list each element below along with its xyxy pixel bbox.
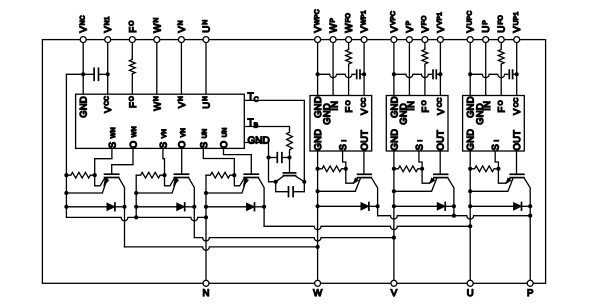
junction V resistor node: [392, 167, 396, 171]
wire cap left lead: [83, 73, 94, 75]
arrow QWp emitter: [353, 178, 358, 184]
junction V high collector P bus: [452, 214, 456, 218]
junction DWn anode: [64, 205, 68, 209]
svg-text:V: V: [391, 288, 398, 299]
wire WN input: [156, 43, 158, 95]
wire SU sense: [495, 151, 498, 169]
svg-text:GND: GND: [466, 129, 477, 151]
wire UFO upper lead: [500, 43, 502, 49]
terminal VWP1: [361, 37, 367, 43]
wire UFO lower lead: [500, 66, 502, 96]
resistor FO pull-up: [129, 58, 135, 75]
wire SW sense: [343, 151, 346, 169]
wire TB resistor to node: [289, 153, 291, 158]
wire W output bus row: [125, 247, 318, 250]
wire cap to VUP1: [513, 73, 517, 75]
svg-text:P: P: [527, 288, 533, 299]
junction U bus terminal: [468, 224, 472, 228]
junction W diode node: [316, 204, 320, 208]
terminal UP: [483, 37, 489, 43]
wire QVp emitter main: [394, 178, 437, 191]
wire QVp emitter sense: [422, 169, 434, 183]
junction SV node: [420, 167, 424, 171]
wire W-phase emitter bus vertical: [65, 74, 67, 217]
wire QUn emitter sense: [234, 175, 244, 186]
wire U low collector to bus: [263, 207, 265, 227]
junction VN1 cap node: [106, 72, 110, 76]
diode DWp freewheel: [361, 203, 369, 211]
wire VWPC to HVIC: [317, 43, 319, 96]
terminal VP: [406, 37, 412, 43]
wire sub cap left lead: [269, 157, 278, 159]
transistor QUn gate bar: [244, 173, 258, 175]
wire U phase vertical: [469, 151, 471, 280]
arrow QUn emitter: [243, 178, 248, 186]
transistor Q7 gate bar: [283, 172, 295, 174]
terminal VNC: [80, 37, 86, 43]
terminal FO: [129, 37, 135, 43]
transistor QUp channel bar: [510, 177, 524, 179]
junction W emitter resistor: [64, 173, 68, 177]
wire VNC to LVIC GND pin: [82, 43, 84, 95]
wire SUN gate-sense: [203, 148, 234, 175]
wire OWN gate drive: [112, 148, 133, 174]
wire VFO upper lead: [424, 43, 426, 49]
wire UP input: [485, 43, 487, 96]
wire VFO lower lead: [424, 66, 426, 96]
wire WP input: [332, 43, 334, 96]
wire QUn collector: [258, 178, 264, 207]
junction QVn emitter bus: [134, 191, 138, 195]
wire diode DWn cathode lead: [114, 206, 124, 208]
resistor VFO pull-up: [422, 48, 428, 66]
transistor QUp gate bar: [510, 173, 524, 175]
wire SVN gate-sense: [163, 148, 165, 175]
wire FO upper lead: [131, 43, 133, 59]
wire SV sense: [419, 151, 422, 169]
wire diode DUn anode lead: [206, 206, 247, 208]
terminal VFO: [422, 37, 428, 43]
terminal P: [527, 280, 533, 286]
diode DUn freewheel: [247, 203, 255, 211]
transistor QVn channel bar: [174, 177, 188, 179]
svg-text:IN: IN: [330, 101, 341, 111]
terminal UN: [203, 37, 209, 43]
wire V output bus row: [194, 238, 394, 241]
IC HVIC W box: [310, 96, 372, 152]
junction W bus terminal: [316, 245, 320, 249]
resistor RVn gate-emitter: [136, 172, 164, 178]
junction N bus V emitter: [134, 215, 138, 219]
junction SVN node: [162, 173, 166, 177]
junction VWP1 cap node: [362, 72, 366, 76]
junction DUn anode: [204, 205, 208, 209]
IC HVIC V box: [386, 96, 448, 152]
wire VUPC to HVIC: [469, 43, 471, 96]
junction GND sub node: [266, 155, 270, 159]
resistor WFO pull-up: [346, 48, 352, 66]
arrow QWn emitter: [104, 178, 109, 186]
junction Q7 source: [274, 180, 278, 184]
svg-text:GND: GND: [389, 129, 400, 151]
transistor QVp channel bar: [434, 177, 448, 179]
junction VUPC cap node: [468, 72, 472, 76]
wire QWn emitter sense: [95, 175, 105, 186]
wire VN input: [180, 43, 182, 95]
capacitor VN1 decoupling: [93, 68, 95, 80]
wire QVn collector: [189, 178, 195, 207]
junction U diode node: [468, 204, 472, 208]
junction VVP1 cap node: [438, 72, 442, 76]
svg-text:OUT: OUT: [359, 130, 370, 151]
terminal W: [315, 280, 321, 286]
junction QVn collector diode: [192, 205, 196, 209]
diode DWn freewheel: [107, 203, 115, 211]
wire QUn emitter main: [206, 178, 247, 193]
wire W low collector to bus: [124, 207, 126, 247]
wire VVPC to HVIC: [393, 43, 395, 96]
resistor TB: [287, 130, 293, 153]
wire V phase vertical: [393, 151, 395, 280]
capacitor CUp decoupling: [508, 70, 510, 78]
junction SWN node: [93, 173, 97, 177]
transistor QVn gate bar: [174, 173, 188, 175]
wire diode DUp anode lead: [470, 205, 513, 207]
wire N bus row: [66, 217, 206, 220]
wire diode DWp cathode lead: [368, 205, 377, 207]
wire QUp collector: [524, 178, 530, 207]
junction N bus U emitter: [204, 215, 208, 219]
terminal VVP1: [437, 37, 443, 43]
wire QWp emitter main: [318, 178, 361, 191]
arrow QVp emitter: [430, 178, 435, 184]
wire GND branch to N bus: [66, 73, 83, 75]
junction QWn emitter bus: [64, 191, 68, 195]
junction VUP1 cap node: [515, 72, 519, 76]
wire OUTW gate drive: [363, 151, 365, 174]
resistor RVp gate-emitter: [394, 166, 422, 172]
junction Q7 drain: [302, 180, 306, 184]
svg-text:N: N: [203, 288, 210, 299]
wire OVN gate drive: [181, 148, 183, 174]
wire W phase vertical: [317, 151, 319, 280]
wire VUP1 cap line: [470, 74, 507, 77]
wire QWn collector: [119, 178, 125, 207]
wire VWP1 cap line: [318, 74, 355, 77]
wire V high collector to P bus: [453, 206, 455, 215]
wire diode DWn anode lead: [66, 206, 107, 208]
junction QUn collector diode: [262, 205, 266, 209]
wire cap right lead: [99, 73, 108, 75]
junction VVPC cap node: [392, 72, 396, 76]
wire FO lower lead: [131, 75, 133, 94]
diode DVp freewheel: [437, 203, 445, 211]
terminal WP: [330, 37, 336, 43]
junction SW node: [344, 167, 348, 171]
wire VVP1 cap line: [394, 74, 431, 77]
junction QVp collector diode: [452, 204, 456, 208]
wire WFO upper lead: [348, 43, 350, 49]
svg-text:GND: GND: [313, 129, 324, 151]
wire QUp emitter main: [470, 178, 513, 191]
svg-text:OUT: OUT: [436, 130, 447, 151]
terminal VN: [178, 37, 184, 43]
junction VNC cap node: [81, 72, 85, 76]
wire U high collector to P terminal: [529, 206, 531, 280]
terminal VUP1: [514, 37, 520, 43]
wire GND right from LVIC: [244, 143, 275, 182]
wire OUN gate drive: [224, 148, 252, 174]
terminal U: [467, 280, 473, 286]
terminal N: [203, 280, 209, 286]
wire TC from LVIC: [244, 100, 304, 181]
wire Q7 right leg: [295, 176, 304, 182]
diode DUp freewheel: [514, 203, 522, 211]
resistor RWn gate-emitter: [66, 172, 94, 178]
junction SU node: [496, 167, 500, 171]
wire V low collector to bus: [193, 207, 195, 238]
wire TB from LVIC: [244, 127, 289, 130]
transistor Q7 channel bar: [283, 175, 295, 177]
junction V emitter node: [392, 189, 396, 193]
junction VWPC cap node: [316, 72, 320, 76]
wire VVP1 supply: [439, 43, 441, 96]
wire diode DUp cathode lead: [521, 205, 530, 207]
terminal V: [391, 280, 397, 286]
wire QWp emitter sense: [346, 169, 358, 183]
junction QWp collector diode: [376, 204, 380, 208]
wire QVn emitter sense: [165, 175, 175, 186]
wire VUP1 supply: [516, 43, 518, 96]
transistor QWn gate bar: [105, 173, 119, 175]
transistor QVp gate bar: [434, 173, 448, 175]
transistor QWp gate bar: [358, 173, 372, 175]
wire P bus: [378, 216, 531, 219]
wire diode DVp anode lead: [394, 205, 437, 207]
terminal VWPC: [315, 37, 321, 43]
wire diode DUn cathode lead: [254, 206, 264, 208]
transistor QUn channel bar: [244, 177, 258, 179]
svg-text:GND: GND: [79, 96, 90, 118]
terminal VN1: [105, 37, 111, 43]
capacitor CVp decoupling: [432, 70, 434, 78]
wire sub gate drop: [289, 158, 291, 173]
wire QUp emitter sense: [498, 169, 510, 183]
junction U emitter node: [468, 189, 472, 193]
wire Q7 lower loop right: [293, 182, 304, 192]
resistor RUp gate-emitter: [470, 166, 498, 172]
resistor RUn gate-emitter: [206, 172, 234, 178]
wire WFO lower lead: [348, 66, 350, 96]
arrow QUp emitter: [506, 178, 511, 184]
svg-text:W: W: [313, 288, 323, 299]
wire VWP1 supply: [363, 43, 365, 96]
arrow QVn emitter: [173, 178, 178, 186]
transistor QWp channel bar: [358, 177, 372, 179]
junction DVn anode: [134, 205, 138, 209]
IC HVIC U box: [463, 96, 525, 152]
junction V bus terminal: [392, 236, 396, 240]
resistor RWp gate-emitter: [318, 166, 346, 172]
wire sub cap right lead: [282, 157, 290, 159]
wire diode DVp cathode lead: [445, 205, 454, 207]
wire QVn emitter main: [136, 178, 177, 193]
wire V-phase emitter bus vertical: [135, 175, 137, 217]
terminal WFO: [346, 37, 352, 43]
wire QVp collector: [448, 178, 454, 207]
terminal WN: [154, 37, 160, 43]
wire diode DVn cathode lead: [184, 206, 194, 208]
junction V diode node: [392, 204, 396, 208]
junction U resistor node: [468, 167, 472, 171]
wire VN1 to LVIC Vcc pin: [107, 43, 109, 95]
wire Q7 left leg: [276, 176, 284, 182]
package outline border: [42, 40, 545, 284]
svg-text:OUT: OUT: [512, 130, 523, 151]
wire cap to VVP1: [436, 73, 440, 75]
capacitor CWp decoupling: [356, 70, 358, 78]
junction P bus corner: [528, 214, 532, 218]
svg-text:U: U: [467, 288, 474, 299]
junction QUp collector diode: [528, 204, 532, 208]
diode DVn freewheel: [177, 203, 185, 211]
capacitor sub output: [288, 187, 290, 197]
wire W high collector to P bus: [377, 206, 379, 215]
IC U1 LVIC box: [76, 94, 245, 148]
junction W emitter node: [316, 189, 320, 193]
junction W resistor node: [316, 167, 320, 171]
wire OUTU gate drive: [516, 151, 518, 174]
wire VP input: [408, 43, 410, 96]
svg-text:IN: IN: [482, 101, 493, 111]
wire QWp collector: [371, 178, 377, 207]
wire SWN gate-sense: [95, 148, 112, 175]
junction SUN node: [232, 173, 236, 177]
capacitor sub gate: [276, 153, 278, 163]
wire diode DWp anode lead: [318, 205, 361, 207]
wire OUTV gate drive: [439, 151, 441, 174]
wire U-phase emitter bus vertical: [205, 175, 207, 280]
terminal VVPC: [391, 37, 397, 43]
wire diode DVn anode lead: [136, 206, 177, 208]
svg-text:GND: GND: [248, 136, 270, 147]
wire Q7 lower loop left: [276, 182, 289, 192]
wire U output bus row: [264, 226, 470, 229]
junction sub gate node: [287, 155, 291, 159]
terminal UFO: [498, 37, 504, 43]
wire cap to VWP1: [360, 73, 364, 75]
svg-text:IN: IN: [406, 101, 417, 111]
junction QWn collector diode: [122, 205, 126, 209]
wire QWn emitter main: [66, 178, 107, 193]
terminal VUPC: [467, 37, 473, 43]
junction QUn emitter bus: [204, 191, 208, 195]
resistor UFO pull-up: [498, 48, 504, 66]
wire UN input: [205, 43, 207, 95]
transistor QWn channel bar: [105, 177, 119, 179]
